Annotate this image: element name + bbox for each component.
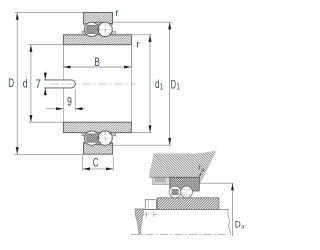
dimension 7 (slot width) [36, 72, 47, 97]
ball top-left white fill [84, 22, 98, 36]
label ra with leader [199, 163, 205, 177]
dimension C [83, 155, 114, 171]
svg-text:7: 7 [36, 77, 42, 91]
inner raceway wedge bottom [97, 133, 100, 135]
tiny slot dimension marks [143, 212, 158, 218]
main axis centerline [50, 83, 136, 85]
dimension D1 [109, 22, 180, 145]
ball right outline and marks (view 2) [181, 186, 193, 198]
inner ring (view 2) [157, 198, 219, 210]
svg-text:1: 1 [160, 81, 163, 91]
shaft break curve (right) [228, 210, 231, 235]
ball left outline and cage pocket (view 2) [169, 186, 181, 198]
dimension D [8, 13, 83, 155]
inner ring top shoulders [82, 32, 116, 35]
dimension B [63, 45, 131, 69]
drive slot [44, 80, 75, 88]
svg-text:B: B [94, 55, 99, 69]
svg-text:1: 1 [176, 82, 179, 92]
svg-text:a: a [202, 168, 205, 174]
ball top-left outline and cage section [84, 22, 98, 36]
outer ring top section [84, 13, 113, 25]
outer ring bottom section [84, 143, 113, 155]
outer raceway wedge top [96, 22, 100, 26]
inner ring bottom shoulders [82, 132, 116, 135]
shaft [144, 209, 229, 211]
dimension d1 [132, 35, 163, 133]
drive washer piece (view 2) [145, 200, 156, 210]
ball left white (view 2) [169, 186, 181, 198]
ball bottom-left white fill [84, 131, 98, 145]
axis centerline (view 2) [131, 233, 227, 235]
housing section [149, 151, 233, 184]
inner ring bottom section [63, 122, 131, 132]
ball bottom-right outline and centerlines [98, 131, 113, 145]
ball right white (view 2) [181, 186, 193, 198]
svg-text:d: d [23, 76, 28, 90]
shaft break sliver (left) [135, 209, 145, 234]
inner ring top section [63, 35, 131, 45]
svg-text:D: D [8, 76, 14, 90]
ball top-right white fill [98, 22, 112, 36]
ball top-right outline and centerlines [98, 22, 113, 36]
dimension Da [231, 183, 245, 236]
inner ring left face line [62, 45, 64, 123]
svg-text:D: D [171, 77, 177, 91]
inner raceway wedge top [97, 33, 100, 35]
outer ring body (view 2) [170, 177, 200, 191]
svg-text:C: C [93, 155, 99, 169]
svg-text:9: 9 [67, 94, 72, 108]
dimension d [23, 45, 64, 123]
dimension 9 (slot depth) [46, 90, 85, 111]
ball bottom-left outline and cage section [84, 131, 98, 145]
ball bottom-right white fill [98, 131, 112, 145]
inner ring right face line [130, 45, 132, 123]
outer raceway wedge bottom [96, 142, 100, 146]
clamp band (view 2) [152, 177, 170, 184]
svg-text:D: D [235, 219, 241, 229]
